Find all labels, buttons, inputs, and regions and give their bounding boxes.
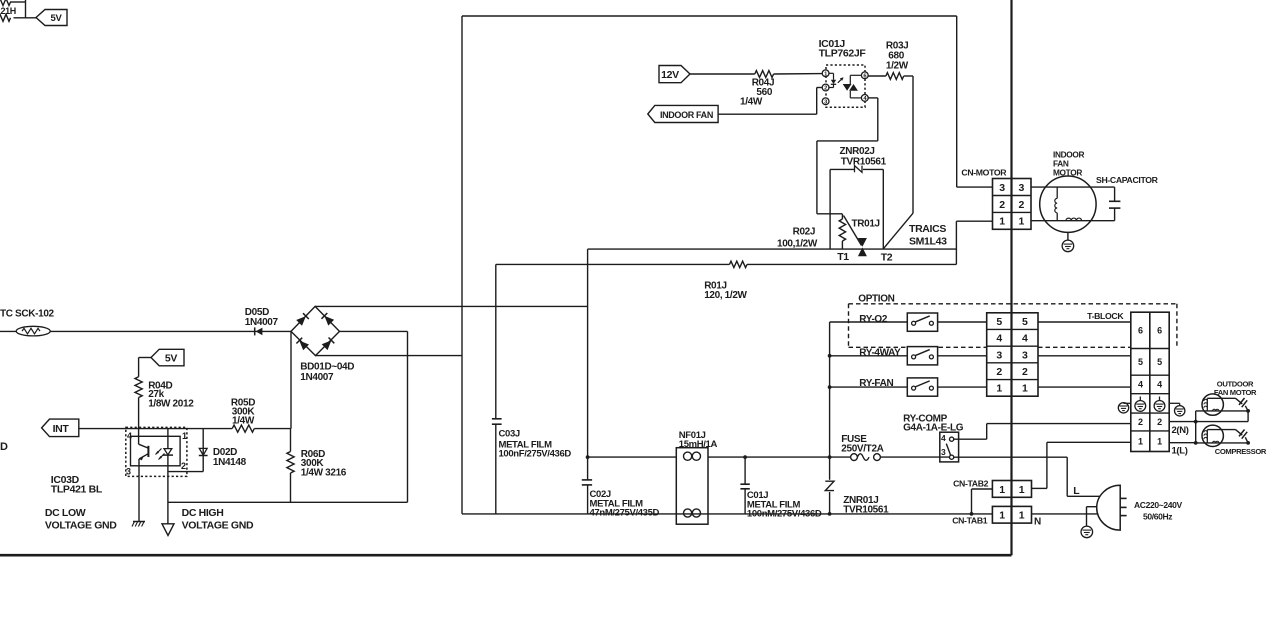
svg-text:TLP762JF: TLP762JF: [819, 48, 867, 60]
svg-text:1: 1: [999, 510, 1005, 522]
svg-text:TRAICS: TRAICS: [909, 223, 946, 235]
svg-text:TLP421 BL: TLP421 BL: [51, 484, 103, 496]
svg-text:1: 1: [999, 216, 1005, 228]
svg-text:3: 3: [941, 447, 946, 457]
svg-text:1: 1: [182, 431, 187, 441]
svg-text:1: 1: [1018, 216, 1024, 228]
svg-text:1: 1: [999, 484, 1005, 496]
svg-text:50/60Hz: 50/60Hz: [1143, 512, 1172, 522]
svg-text:VOLTAGE GND: VOLTAGE GND: [182, 520, 254, 532]
svg-text:T-BLOCK: T-BLOCK: [1087, 311, 1124, 321]
svg-text:100nM/275V/436D: 100nM/275V/436D: [747, 508, 822, 519]
svg-text:L: L: [1073, 485, 1080, 497]
svg-text:DC HIGH: DC HIGH: [182, 507, 224, 519]
svg-text:R02J: R02J: [793, 227, 816, 238]
svg-text:INT: INT: [53, 423, 70, 435]
svg-text:4: 4: [941, 433, 946, 443]
svg-text:4: 4: [996, 333, 1002, 345]
svg-text:2: 2: [1138, 417, 1143, 427]
svg-text:BD01D~04D: BD01D~04D: [300, 362, 354, 373]
svg-text:3: 3: [126, 467, 131, 477]
svg-text:TR01J: TR01J: [852, 219, 880, 230]
svg-text:SH-CAPACITOR: SH-CAPACITOR: [1096, 175, 1159, 185]
svg-text:4: 4: [1157, 380, 1162, 390]
svg-text:1/4W: 1/4W: [232, 415, 255, 426]
svg-text:21H: 21H: [1, 6, 16, 16]
svg-text:3: 3: [999, 182, 1005, 194]
svg-text:2: 2: [1018, 199, 1024, 211]
svg-text:2: 2: [181, 461, 186, 471]
svg-text:2: 2: [996, 366, 1002, 378]
svg-text:1: 1: [1157, 436, 1162, 446]
svg-text:2: 2: [999, 199, 1005, 211]
svg-text:12V: 12V: [661, 69, 679, 81]
svg-text:4: 4: [127, 431, 132, 441]
svg-text:5: 5: [1157, 357, 1162, 367]
svg-text:1: 1: [1022, 383, 1028, 395]
svg-text:6: 6: [1138, 326, 1143, 336]
svg-text:2: 2: [1157, 417, 1162, 427]
svg-text:TVR10561: TVR10561: [841, 157, 887, 168]
svg-text:120, 1/2W: 120, 1/2W: [704, 290, 747, 301]
svg-text:CN-MOTOR: CN-MOTOR: [961, 168, 1007, 178]
svg-text:1: 1: [1019, 484, 1025, 496]
svg-text:CN-TAB2: CN-TAB2: [953, 478, 989, 488]
svg-text:100nF/275V/436D: 100nF/275V/436D: [499, 449, 572, 460]
svg-text:INDOOR FAN: INDOOR FAN: [660, 110, 713, 120]
svg-text:3: 3: [1018, 182, 1024, 194]
svg-text:5: 5: [1022, 316, 1028, 328]
svg-text:5: 5: [996, 316, 1002, 328]
svg-text:SM1L43: SM1L43: [909, 236, 947, 248]
svg-text:5V: 5V: [51, 13, 63, 24]
svg-text:1: 1: [996, 383, 1002, 395]
svg-text:6: 6: [1157, 326, 1162, 336]
svg-text:VOLTAGE GND: VOLTAGE GND: [45, 520, 117, 532]
svg-text:MOTOR: MOTOR: [1053, 168, 1082, 178]
svg-text:ZNR02J: ZNR02J: [840, 146, 875, 157]
svg-text:47nM/275V/435D: 47nM/275V/435D: [590, 508, 660, 519]
svg-text:2(N): 2(N): [1172, 425, 1189, 436]
svg-text:3: 3: [996, 349, 1002, 361]
svg-text:3: 3: [1022, 349, 1028, 361]
svg-text:2: 2: [824, 86, 827, 92]
svg-text:1: 1: [1019, 510, 1025, 522]
svg-text:1/8W 2012: 1/8W 2012: [148, 399, 194, 410]
svg-text:4: 4: [1022, 333, 1028, 345]
svg-text:DC LOW: DC LOW: [45, 507, 86, 519]
svg-text:1N4007: 1N4007: [300, 372, 334, 383]
svg-text:5: 5: [1138, 357, 1143, 367]
svg-text:15mH/1A: 15mH/1A: [679, 439, 718, 450]
svg-text:CN-TAB1: CN-TAB1: [952, 515, 988, 525]
svg-text:1/4W 3216: 1/4W 3216: [301, 468, 347, 479]
svg-text:FAN MOTOR: FAN MOTOR: [1214, 388, 1257, 397]
svg-text:250V/T2A: 250V/T2A: [841, 443, 883, 454]
svg-text:TVR10561: TVR10561: [843, 505, 889, 516]
svg-text:1(L): 1(L): [1172, 445, 1188, 456]
svg-text:4: 4: [1138, 380, 1143, 390]
svg-text:100,1/2W: 100,1/2W: [777, 238, 818, 249]
svg-text:D: D: [0, 441, 8, 453]
svg-text:TC SCK-102: TC SCK-102: [0, 309, 55, 320]
svg-text:5V: 5V: [165, 353, 177, 365]
svg-text:T1: T1: [837, 251, 849, 263]
svg-text:COMPRESSOR: COMPRESSOR: [1215, 447, 1267, 456]
svg-text:T2: T2: [881, 251, 893, 263]
svg-text:1N4007: 1N4007: [245, 317, 279, 328]
svg-text:RY-O2: RY-O2: [859, 314, 888, 325]
svg-text:1/4W: 1/4W: [740, 96, 763, 107]
svg-text:AC220~240V: AC220~240V: [1134, 500, 1182, 510]
svg-text:2: 2: [1022, 366, 1028, 378]
svg-text:1: 1: [1138, 436, 1143, 446]
svg-text:N: N: [1034, 517, 1041, 528]
svg-text:RY-4WAY: RY-4WAY: [859, 348, 901, 359]
svg-text:1/2W: 1/2W: [886, 60, 909, 71]
svg-text:C03J: C03J: [499, 429, 520, 440]
svg-text:OPTION: OPTION: [858, 293, 894, 304]
svg-text:1N4148: 1N4148: [213, 457, 247, 468]
